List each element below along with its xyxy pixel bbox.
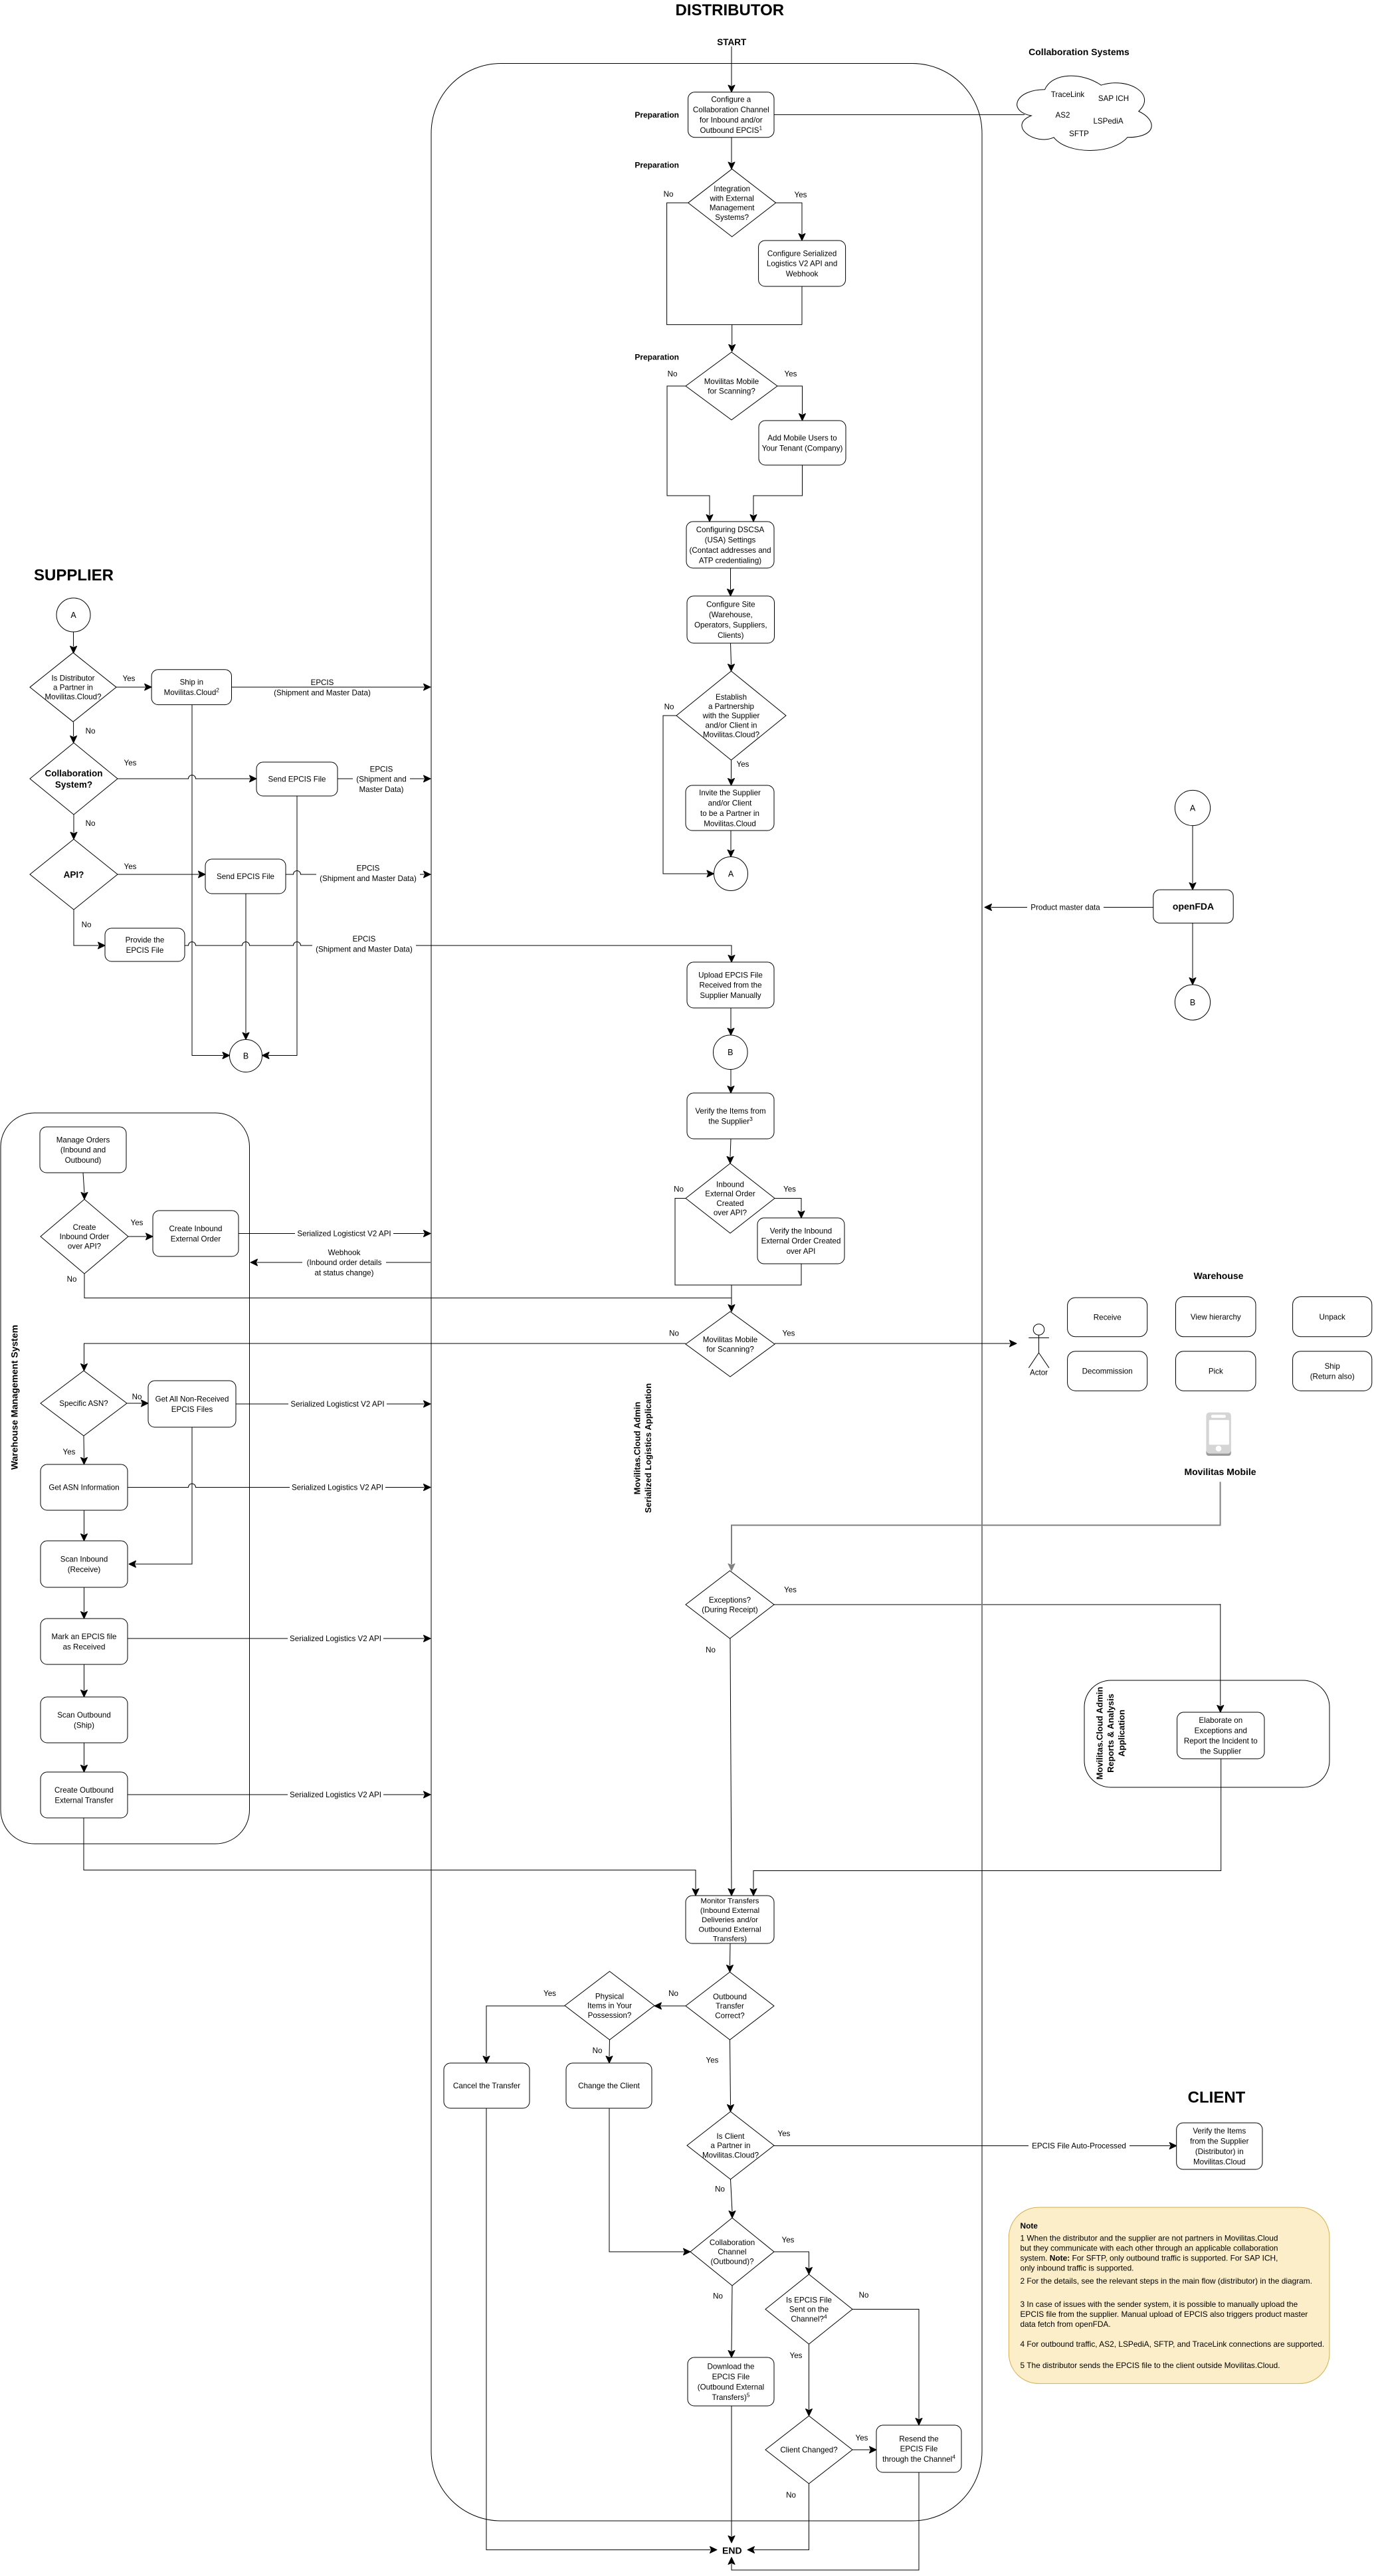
label No (OutboundCorrect) <box>668 1989 678 1998</box>
container Warehouse Management System swimlane (rounded) <box>1 1113 250 1844</box>
svg-text:Change the Client: Change the Client <box>578 2082 640 2090</box>
label Collaboration Systems <box>1029 47 1129 57</box>
svg-text:Yes: Yes <box>782 2236 795 2244</box>
svg-text:No: No <box>706 1646 716 1654</box>
svg-text:Scan Inbound: Scan Inbound <box>60 1555 108 1564</box>
wire Create Inbound Ext Order to container (Serialized API) <box>239 1231 431 1237</box>
svg-text:Yes: Yes <box>795 191 807 199</box>
action Unpack <box>1293 1297 1372 1337</box>
wire MobileScan1 No down-around <box>667 386 713 522</box>
svg-text:No: No <box>67 1275 77 1284</box>
process Ship in Movilitas.Cloud <box>151 670 231 705</box>
process Get ASN Information <box>41 1464 128 1510</box>
label Movilitas Mobile <box>1184 1466 1256 1477</box>
svg-text:data fetch from openFDA.: data fetch from openFDA. <box>1021 2320 1111 2329</box>
svg-text:(Shipment and Master Data): (Shipment and Master Data) <box>274 688 371 697</box>
svg-text:No: No <box>86 819 96 828</box>
note box background <box>1009 2207 1329 2383</box>
svg-text:Application: Application <box>1117 1710 1127 1757</box>
svg-text:Decommission: Decommission <box>1082 1367 1133 1376</box>
wire WMS outbound transfer to Monitor Transfers <box>84 1818 699 1896</box>
svg-text:(Inbound and: (Inbound and <box>60 1146 106 1155</box>
svg-text:(Distributor) in: (Distributor) in <box>1195 2147 1244 2156</box>
wire Exceptions No to Monitor Transfers <box>728 1638 735 1896</box>
svg-text:EPCIS File Auto-Processed: EPCIS File Auto-Processed <box>1032 2142 1126 2151</box>
svg-text:Get All Non-Received: Get All Non-Received <box>155 1395 229 1404</box>
wire Establish No down-around to A <box>663 716 714 877</box>
decision Movilitas Mobile for Scanning 2 <box>686 1312 775 1377</box>
process client Verify the Items <box>1177 2123 1262 2169</box>
process Change the Client <box>566 2063 652 2108</box>
process Invite the Supplier <box>686 785 774 831</box>
svg-text:Serialized Logistics V2 API: Serialized Logistics V2 API <box>290 1791 381 1799</box>
svg-text:Webhook: Webhook <box>328 1248 361 1257</box>
wire Verify Items to Inbound Ext Order diamond <box>727 1139 734 1163</box>
svg-text:SAP ICH: SAP ICH <box>1098 94 1129 103</box>
wire right A to openFDA <box>1189 826 1196 890</box>
wire Physical Yes to Cancel Transfer <box>483 2006 565 2063</box>
svg-text:Create Inbound: Create Inbound <box>169 1225 223 1233</box>
action Decommission <box>1068 1351 1147 1391</box>
lane label Warehouse Management System (rotated) <box>9 1325 20 1470</box>
svg-text:Get ASN Information: Get ASN Information <box>49 1484 119 1492</box>
svg-text:Movilitas.Cloud Admin: Movilitas.Cloud Admin <box>1095 1687 1105 1780</box>
process Scan Inbound <box>41 1541 128 1587</box>
label Preparation 3 <box>635 352 679 361</box>
svg-text:Transfers)5: Transfers)5 <box>712 2391 749 2401</box>
connector circle B supplier <box>230 1040 262 1072</box>
wire Exceptions Yes horizontal (gray) <box>774 1604 1221 1605</box>
wire Movilitas Mobile phone to Exceptions diamond <box>728 1482 1221 1571</box>
svg-text:Collaboration: Collaboration <box>45 768 103 778</box>
svg-text:Collaboration: Collaboration <box>710 2238 755 2247</box>
action Receive <box>1068 1298 1147 1337</box>
svg-text:SUPPLIER: SUPPLIER <box>34 567 114 585</box>
svg-text:Clients): Clients) <box>718 631 743 640</box>
wire GetAll to container (Serialized API) <box>236 1401 431 1407</box>
label Warehouse <box>1194 1270 1244 1281</box>
svg-text:Items in Your: Items in Your <box>587 2002 632 2011</box>
svg-text:Received from the: Received from the <box>699 981 761 990</box>
svg-text:API?: API? <box>64 870 84 880</box>
svg-text:a Partner in: a Partner in <box>711 2141 751 2150</box>
svg-text:(USA) Settings: (USA) Settings <box>705 536 756 545</box>
wire openFDA to container (Product master data) <box>985 904 1153 911</box>
svg-text:Integration: Integration <box>714 185 750 193</box>
label START <box>717 37 747 47</box>
svg-text:No: No <box>669 1330 679 1338</box>
svg-text:Transfers): Transfers) <box>713 1935 747 1943</box>
svg-text:at status change): at status change) <box>315 1269 374 1278</box>
cloud label LSPediA <box>1093 117 1123 126</box>
svg-text:as Received: as Received <box>63 1642 106 1651</box>
wire CollabChannel Yes to Is EPCIS Sent diamond <box>774 2252 813 2274</box>
svg-text:(Contact addresses and: (Contact addresses and <box>689 546 771 555</box>
svg-text:Is EPCIS File: Is EPCIS File <box>786 2296 832 2305</box>
process Scan Outbound <box>41 1697 128 1743</box>
svg-text:Cancel the Transfer: Cancel the Transfer <box>453 2082 520 2090</box>
wire IsEPCISSent No around to Resend <box>852 2310 922 2426</box>
svg-text:Warehouse: Warehouse <box>1194 1270 1244 1281</box>
svg-text:Create: Create <box>73 1223 96 1232</box>
svg-text:5 The distributor sends the EP: 5 The distributor sends the EPCIS file t… <box>1021 2361 1280 2370</box>
svg-text:Warehouse Management System: Warehouse Management System <box>9 1325 20 1470</box>
label No (CollaborationSystem) <box>86 819 96 828</box>
wire OutboundCorrect No to Physical diamond <box>654 2003 686 2009</box>
svg-text:Correct?: Correct? <box>715 2011 745 2020</box>
decision Outbound Transfer Correct <box>686 1972 774 2040</box>
svg-text:Ship in: Ship in <box>180 678 203 687</box>
svg-text:EPCIS: EPCIS <box>353 935 376 943</box>
svg-text:No: No <box>713 2292 723 2301</box>
svg-text:Verify the Items from: Verify the Items from <box>695 1107 765 1116</box>
svg-text:the Supplier: the Supplier <box>1200 1747 1241 1755</box>
decision Movilitas Mobile for Scanning (prep) <box>686 352 777 420</box>
svg-text:(Shipment and Master Data): (Shipment and Master Data) <box>316 945 413 953</box>
svg-text:(Warehouse,: (Warehouse, <box>709 611 753 619</box>
svg-text:for Scanning?: for Scanning? <box>708 387 755 395</box>
svg-text:Outbound: Outbound <box>713 1993 747 2001</box>
wire OutboundCorrect Yes to Is Client diamond <box>728 2040 734 2112</box>
wire Send EPCIS 1 down to B <box>262 796 298 1059</box>
svg-text:Outbound External: Outbound External <box>698 1926 761 1933</box>
process Verify Inbound External Order <box>757 1218 844 1264</box>
wire IsDistributor No to CollaborationSystem diamond <box>70 722 77 743</box>
svg-text:Invite the Supplier: Invite the Supplier <box>699 789 761 797</box>
svg-text:Manage Orders: Manage Orders <box>56 1136 110 1144</box>
label Serialized Logisticst V2 API 2 <box>288 1399 387 1409</box>
wire DSCSA to Configure Site <box>728 568 734 596</box>
svg-text:Yes: Yes <box>856 2434 868 2442</box>
label Yes (CollabChannel) <box>782 2236 795 2244</box>
connector circle A center <box>714 857 748 891</box>
svg-text:Master Data): Master Data) <box>359 785 403 794</box>
svg-text:Upload EPCIS File: Upload EPCIS File <box>698 971 763 979</box>
svg-text:from the Supplier: from the Supplier <box>1190 2137 1248 2146</box>
svg-text:No: No <box>786 2491 796 2500</box>
svg-text:External Order Created: External Order Created <box>761 1237 841 1246</box>
svg-text:Configure a: Configure a <box>711 96 751 104</box>
cloud label SFTP <box>1069 130 1089 138</box>
wire Scan Inbound to Mark EPCIS <box>81 1587 88 1619</box>
svg-text:No: No <box>664 190 674 199</box>
wire WMS create-inbound-No joins MobileScan2 <box>84 1274 732 1298</box>
svg-text:EPCIS: EPCIS <box>370 765 393 773</box>
label Preparation 2 <box>635 160 679 169</box>
wire API No to Provide EPCIS File <box>74 910 105 949</box>
label Preparation 1 <box>635 110 679 120</box>
svg-text:Yes: Yes <box>131 1219 144 1227</box>
svg-text:Elaborate on: Elaborate on <box>1199 1716 1242 1725</box>
label Serialized Logisticst V2 API 1 <box>295 1229 393 1238</box>
svg-text:Serialized Logistics V2 API: Serialized Logistics V2 API <box>290 1635 381 1643</box>
svg-text:EPCIS Files: EPCIS Files <box>171 1405 213 1414</box>
svg-text:LSPediA: LSPediA <box>1093 117 1123 126</box>
svg-text:Report the Incident to: Report the Incident to <box>1184 1737 1258 1745</box>
action Ship (Return also) <box>1293 1351 1372 1391</box>
svg-text:but they communicate with each: but they communicate with each other thr… <box>1021 2244 1278 2253</box>
wire merge to MobileScan2 diamond <box>728 1285 735 1312</box>
label Yes (Establish) <box>737 760 749 769</box>
svg-text:Preparation: Preparation <box>635 160 679 169</box>
svg-text:EPCIS File: EPCIS File <box>712 2373 750 2381</box>
title SUPPLIER <box>34 567 114 585</box>
wire START to Configure Collaboration Channel <box>728 47 735 92</box>
svg-text:(Inbound order details: (Inbound order details <box>307 1258 382 1267</box>
svg-text:Yes: Yes <box>63 1448 76 1456</box>
wire Verify Inbound down to merge <box>732 1264 801 1285</box>
wire openFDA to right B <box>1189 923 1196 985</box>
label Yes (Exceptions) <box>784 1586 797 1595</box>
cloud Collaboration Systems <box>1017 76 1152 150</box>
svg-text:to be a Partner in: to be a Partner in <box>700 809 759 818</box>
wire Elaborate down-around to Monitor Transfers <box>750 1759 1221 1896</box>
svg-text:Pick: Pick <box>1209 1367 1223 1376</box>
svg-text:EPCIS: EPCIS <box>311 678 334 687</box>
svg-text:Management: Management <box>710 204 755 213</box>
svg-text:EPCIS: EPCIS <box>357 864 380 873</box>
wire IsClient No to Collaboration Channel <box>729 2179 736 2218</box>
svg-text:DISTRIBUTOR: DISTRIBUTOR <box>676 1 785 19</box>
process Download the EPCIS File <box>688 2357 774 2406</box>
svg-text:Monitor Transfers: Monitor Transfers <box>701 1898 759 1906</box>
label Serialized Logistics V2 API 5 <box>288 1790 383 1799</box>
svg-text:3 In case of issues with the s: 3 In case of issues with the sender syst… <box>1021 2300 1298 2309</box>
cloud label AS2 <box>1056 111 1070 120</box>
svg-text:SFTP: SFTP <box>1069 130 1089 138</box>
wire ClientChanged No down to END <box>747 2484 809 2553</box>
svg-text:System?: System? <box>55 779 92 789</box>
decision Client Changed <box>765 2416 852 2484</box>
actor figure <box>1029 1324 1049 1368</box>
decision Is Distributor a Partner <box>30 652 116 722</box>
process Configuring DSCSA Settings <box>686 522 774 568</box>
decision API <box>30 839 118 910</box>
wire Resend down-around to END <box>728 2472 919 2570</box>
svg-text:Configure Serialized: Configure Serialized <box>767 249 836 258</box>
svg-text:Reports & Analysis: Reports & Analysis <box>1106 1694 1116 1773</box>
wire down into Elaborate <box>1217 1604 1224 1712</box>
svg-text:Yes: Yes <box>706 2056 719 2065</box>
title DISTRIBUTOR <box>676 1 785 19</box>
wire IsEPCISSent Yes to Client Changed <box>806 2344 813 2416</box>
svg-text:END: END <box>722 2545 742 2556</box>
connector circle A right <box>1175 790 1210 825</box>
wire Send EPCIS 2 down to B <box>243 894 249 1040</box>
label Yes (OutboundCorrect) <box>706 2056 719 2065</box>
svg-text:No: No <box>859 2291 869 2300</box>
label Yes (API) <box>124 862 137 871</box>
svg-text:and/or Client: and/or Client <box>708 799 753 808</box>
svg-text:a Partner in: a Partner in <box>53 684 93 692</box>
wire SpecificASN Yes to Get ASN Information <box>81 1436 88 1464</box>
label Yes (MobileScan2) <box>783 1330 795 1338</box>
wire IsClient Yes to client Verify box <box>774 2143 1177 2149</box>
label Yes (Integration) <box>795 191 807 199</box>
process Provide the EPCIS File <box>105 928 185 961</box>
decision Is EPCIS File Sent on the Channel <box>765 2274 852 2344</box>
svg-text:No: No <box>715 2185 725 2194</box>
wire CollaborationSystem Yes to Send EPCIS File 1 <box>118 775 256 783</box>
svg-text:Yes: Yes <box>123 674 136 683</box>
decision Specific ASN <box>41 1371 127 1436</box>
wire Configure Site to Establish Partnership <box>728 643 735 671</box>
svg-text:with the Supplier: with the Supplier <box>702 712 760 720</box>
decision Inbound External Order Created over API <box>686 1163 775 1233</box>
process Mark an EPCIS file as Received <box>41 1619 128 1664</box>
wire Configure Channel to cloud <box>774 114 1025 116</box>
label Yes (InboundOrder) <box>783 1185 796 1194</box>
svg-text:Movilitas.Cloud Admin: Movilitas.Cloud Admin <box>632 1402 642 1495</box>
decision Physical Items in Your Possession <box>565 1971 654 2040</box>
process Verify Items from Supplier <box>687 1093 774 1139</box>
svg-text:No: No <box>664 703 674 712</box>
process Elaborate on Exceptions <box>1177 1712 1264 1759</box>
label Actor <box>1030 1369 1048 1377</box>
svg-text:a Partnership: a Partnership <box>708 702 754 711</box>
svg-text:Yes: Yes <box>543 1989 556 1998</box>
svg-text:Download the: Download the <box>708 2363 755 2371</box>
wire GetASN to container (Serialized API) <box>128 1484 431 1491</box>
svg-text:Channel: Channel <box>718 2248 746 2256</box>
process Monitor Transfers <box>686 1896 774 1943</box>
svg-text:Serialized Logistics Applicati: Serialized Logistics Application <box>643 1383 653 1513</box>
label Yes (Physical) <box>543 1989 556 1998</box>
svg-text:Verify the Inbound: Verify the Inbound <box>770 1227 832 1235</box>
svg-text:Movilitas.Cloud?: Movilitas.Cloud? <box>45 693 102 702</box>
svg-text:B: B <box>1190 998 1195 1007</box>
svg-text:No: No <box>132 1393 142 1401</box>
action View hierarchy <box>1176 1297 1256 1337</box>
svg-text:Resend the: Resend the <box>899 2434 938 2443</box>
label EPCIS Shipment Master Data 1 <box>274 678 371 697</box>
title CLIENT <box>1188 2089 1246 2107</box>
svg-text:Actor: Actor <box>1030 1369 1048 1377</box>
label Yes (MobileScan1) <box>785 370 797 379</box>
svg-text:Possession?: Possession? <box>588 2011 632 2020</box>
svg-text:Physical: Physical <box>595 1993 624 2001</box>
svg-text:No: No <box>668 1989 678 1998</box>
label No (Establish) <box>664 703 674 712</box>
svg-text:TraceLink: TraceLink <box>1051 90 1085 99</box>
svg-text:Yes: Yes <box>783 1330 795 1338</box>
process Get All Non-Received EPCIS Files <box>148 1381 236 1427</box>
wire circle B to Verify Items <box>728 1070 734 1094</box>
svg-text:Yes: Yes <box>790 2351 803 2360</box>
wire Configure Channel to Integration diamond <box>728 138 735 169</box>
svg-text:Collaboration Systems: Collaboration Systems <box>1029 47 1129 57</box>
svg-text:Yes: Yes <box>737 760 749 769</box>
svg-text:Movilitas.Cloud2: Movilitas.Cloud2 <box>164 687 220 697</box>
wire Change Client to Collaboration Channel diamond <box>609 2108 690 2255</box>
svg-text:2 For the details, see the rel: 2 For the details, see the relevant step… <box>1021 2276 1313 2286</box>
svg-text:EPCIS File: EPCIS File <box>900 2445 938 2454</box>
connector circle B right <box>1175 985 1210 1020</box>
decision Integration with External Management Systems <box>688 169 776 237</box>
wire Webhook return to WMS <box>250 1259 431 1266</box>
label No (InboundOrder) <box>674 1185 684 1194</box>
note text <box>1021 2221 1325 2370</box>
svg-text:for Scanning?: for Scanning? <box>706 1345 754 1353</box>
svg-text:Operators, Suppliers,: Operators, Suppliers, <box>694 621 767 629</box>
label Yes (SpecificASN) <box>63 1448 76 1456</box>
svg-text:No: No <box>674 1185 684 1194</box>
decision Collaboration System <box>30 743 118 815</box>
svg-text:B: B <box>243 1052 248 1061</box>
wire GetASN down to Scan Inbound <box>81 1510 88 1541</box>
wire Physical No to Change Client <box>606 2040 613 2063</box>
decision Exceptions During Receipt <box>686 1571 774 1638</box>
wire ClientChanged Yes to Resend <box>852 2446 876 2453</box>
wire Monitor Transfers to Outbound Correct diamond <box>727 1943 734 1972</box>
wire SpecificASN No to Get All Non-Received <box>127 1400 148 1407</box>
svg-text:Sent on the: Sent on the <box>789 2306 829 2314</box>
label Webhook inbound order details <box>302 1248 386 1278</box>
svg-text:Note: Note <box>1021 2221 1038 2230</box>
svg-text:Yes: Yes <box>785 370 797 379</box>
label No (IsEPCISSent) <box>859 2291 869 2300</box>
wire Manage Orders to CreateInbound diamond <box>81 1173 88 1199</box>
svg-text:No: No <box>593 2046 603 2055</box>
svg-text:Yes: Yes <box>784 1586 797 1595</box>
process Upload EPCIS File Manually <box>687 962 774 1008</box>
svg-text:(Outbound)?: (Outbound)? <box>710 2257 754 2266</box>
svg-text:4 For outbound traffic, AS2, L: 4 For outbound traffic, AS2, LSPediA, SF… <box>1021 2339 1325 2349</box>
svg-text:(Receive): (Receive) <box>68 1565 101 1574</box>
svg-text:Is Distributor: Is Distributor <box>51 674 94 682</box>
svg-text:and/or Client in: and/or Client in <box>706 721 757 730</box>
svg-text:Preparation: Preparation <box>635 352 679 361</box>
svg-text:over API?: over API? <box>68 1242 102 1250</box>
wire MarkEPCIS to container (Serialized API) <box>128 1635 431 1642</box>
svg-text:Create Outbound: Create Outbound <box>54 1786 114 1795</box>
svg-text:Outbound): Outbound) <box>65 1156 102 1165</box>
label Yes (CollaborationSystem) <box>124 759 137 767</box>
svg-text:Product master data: Product master data <box>1030 904 1100 912</box>
label EPCIS Shipment Master Data 4 <box>312 935 416 953</box>
label Yes (CreateInbound) <box>131 1219 144 1227</box>
svg-text:No: No <box>86 727 96 736</box>
svg-text:Preparation: Preparation <box>635 110 679 120</box>
svg-text:Movilitas.Cloud?: Movilitas.Cloud? <box>702 2151 759 2159</box>
label Yes (IsDistributor) <box>123 674 136 683</box>
svg-text:External Transfer: External Transfer <box>54 1796 113 1805</box>
wire Integration Yes to Configure Serialized Logistics <box>776 203 805 241</box>
svg-text:Movilitas Mobile: Movilitas Mobile <box>1184 1466 1256 1477</box>
wire Invite to circle A <box>728 831 734 857</box>
svg-text:Mark an EPCIS file: Mark an EPCIS file <box>52 1633 117 1641</box>
decision Establish a Partnership <box>676 671 786 760</box>
cloud label TraceLink <box>1051 90 1085 99</box>
process Send EPCIS File 2 <box>205 859 286 894</box>
wire merge to Movilitas Mobile diamond <box>729 325 736 351</box>
decision Create Inbound Order over API <box>41 1199 128 1274</box>
svg-text:CLIENT: CLIENT <box>1188 2089 1246 2107</box>
wire CreateInbound Yes to Create Inbound External Order <box>128 1233 153 1240</box>
svg-text:only inbound traffic is suppor: only inbound traffic is supported. <box>1021 2264 1134 2273</box>
wire Integration No down-around <box>667 203 802 324</box>
svg-text:View hierarchy: View hierarchy <box>1191 1313 1241 1322</box>
svg-text:External Order: External Order <box>705 1190 755 1199</box>
wire Establish Yes to Invite <box>728 760 735 785</box>
process Configure Site <box>687 596 775 643</box>
svg-text:Collaboration Channel: Collaboration Channel <box>693 106 769 114</box>
process Add Mobile Users <box>759 421 846 465</box>
wire CollaborationSystem No to API diamond <box>70 815 77 839</box>
svg-text:Scan Outbound: Scan Outbound <box>57 1711 111 1720</box>
wire MobileScan2 No to Specific ASN <box>81 1343 686 1371</box>
connector circle A supplier <box>56 598 90 632</box>
